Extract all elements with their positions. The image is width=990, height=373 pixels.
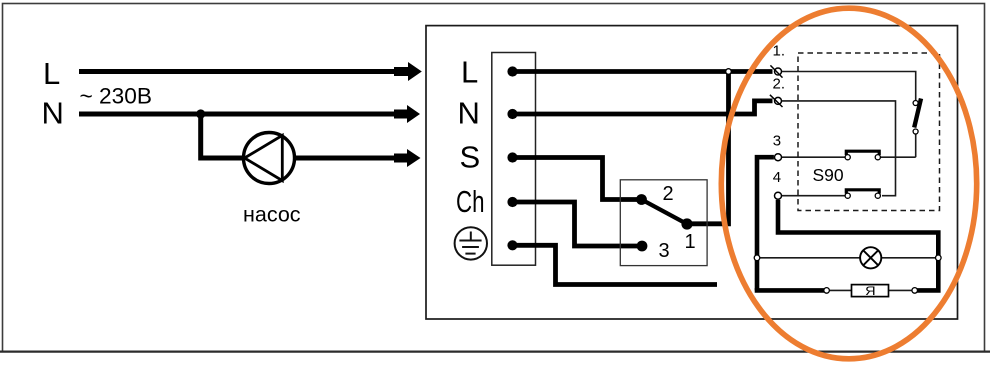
wire terminal2 into S90 down to contact row4	[782, 101, 896, 196]
wire pump branch	[201, 114, 243, 158]
wire pump output	[295, 156, 397, 161]
svg-text:3: 3	[773, 133, 781, 150]
terminal dot S	[507, 152, 517, 162]
svg-text:S90: S90	[813, 165, 844, 185]
contact row3 blade (closed)	[846, 151, 879, 155]
svg-text:~ 230В: ~ 230В	[80, 83, 153, 108]
wire N to terminal 2 (step)	[513, 101, 773, 114]
wire L to terminal 1	[513, 69, 773, 74]
node resistor row right	[912, 288, 918, 294]
switch contact dot 1	[681, 218, 692, 229]
lamp HL (circle with X)	[860, 247, 881, 268]
node lamp row right	[936, 255, 942, 261]
knife switch top circle	[913, 101, 918, 106]
svg-text:N: N	[458, 96, 480, 131]
connector terminal 1 (circle with slash)	[775, 68, 782, 75]
terminal dot L	[507, 66, 517, 76]
switch contact dot 3	[637, 241, 648, 252]
node on L wire	[726, 69, 732, 75]
wire resistor row left (thick)	[755, 288, 824, 293]
resistor row thin wires	[827, 289, 852, 291]
svg-text:Я: Я	[865, 286, 876, 298]
svg-text:2.: 2.	[773, 76, 786, 93]
lamp row wire	[757, 257, 860, 259]
switch selector box	[620, 180, 707, 266]
node resistor row left	[824, 288, 830, 294]
terminal dot PE	[507, 240, 517, 250]
svg-text:N: N	[42, 96, 64, 131]
connector terminal 2 (circle with slash)	[775, 97, 782, 104]
contact row4 blade (closed)	[846, 190, 879, 194]
switch contact dot 2	[636, 194, 647, 205]
thermostat dashed box S90	[798, 53, 940, 211]
wire feed terminal 3 (thick vertical)	[757, 157, 774, 290]
wire L mains	[79, 69, 396, 74]
knife switch blade (open contact)	[914, 99, 921, 128]
pump M1 triangle	[245, 135, 283, 180]
knife switch bottom circle	[913, 129, 918, 134]
svg-text:4: 4	[773, 169, 781, 186]
arrow into box (pump)	[394, 149, 421, 167]
ground symbol (earth in circle)	[455, 227, 487, 259]
contact row4 right circle	[875, 193, 880, 198]
switch blade 2-1	[642, 200, 688, 225]
svg-text:1: 1	[685, 231, 696, 253]
junction node on N	[196, 109, 205, 118]
connector terminal 4 circle	[775, 192, 782, 199]
terminal dot N	[507, 109, 517, 119]
wire L node down to switch contact 1	[687, 72, 729, 224]
svg-text:Ch: Ch	[456, 184, 485, 219]
wire terminal 4 loop (thick)	[778, 200, 938, 291]
wire Ch to switch contact 3	[513, 202, 638, 246]
terminal dot Ch	[507, 197, 517, 207]
arrow into box (L)	[394, 62, 422, 81]
orange highlight ellipse	[721, 8, 976, 359]
node lamp row left	[754, 255, 760, 261]
svg-text:L: L	[43, 56, 60, 91]
resistor R (box)	[852, 285, 889, 297]
wire N mains	[79, 112, 396, 117]
contact row4 left circle	[845, 193, 850, 198]
pump M1 circle	[244, 133, 295, 184]
bottom separator line	[0, 351, 990, 353]
arrow into box (N)	[394, 105, 420, 123]
wire terminal4 row	[782, 195, 845, 197]
wire from knife switch down	[915, 132, 917, 158]
wire terminal3 row	[782, 156, 845, 158]
contact row3 right circle	[875, 155, 880, 160]
wire terminal1 into S90	[782, 72, 916, 101]
svg-text:3: 3	[659, 240, 670, 262]
svg-text:2: 2	[663, 183, 674, 205]
outer enclosure box	[426, 26, 958, 319]
terminal strip X1	[492, 53, 536, 266]
connector terminal 3 circle	[775, 154, 782, 161]
contact row3 left circle	[845, 155, 850, 160]
svg-text:L: L	[461, 54, 478, 89]
svg-text:S: S	[460, 140, 481, 175]
wire PE (ground)	[513, 245, 718, 284]
svg-text:насос: насос	[243, 203, 301, 227]
wire S to switch contact 2	[513, 158, 638, 200]
